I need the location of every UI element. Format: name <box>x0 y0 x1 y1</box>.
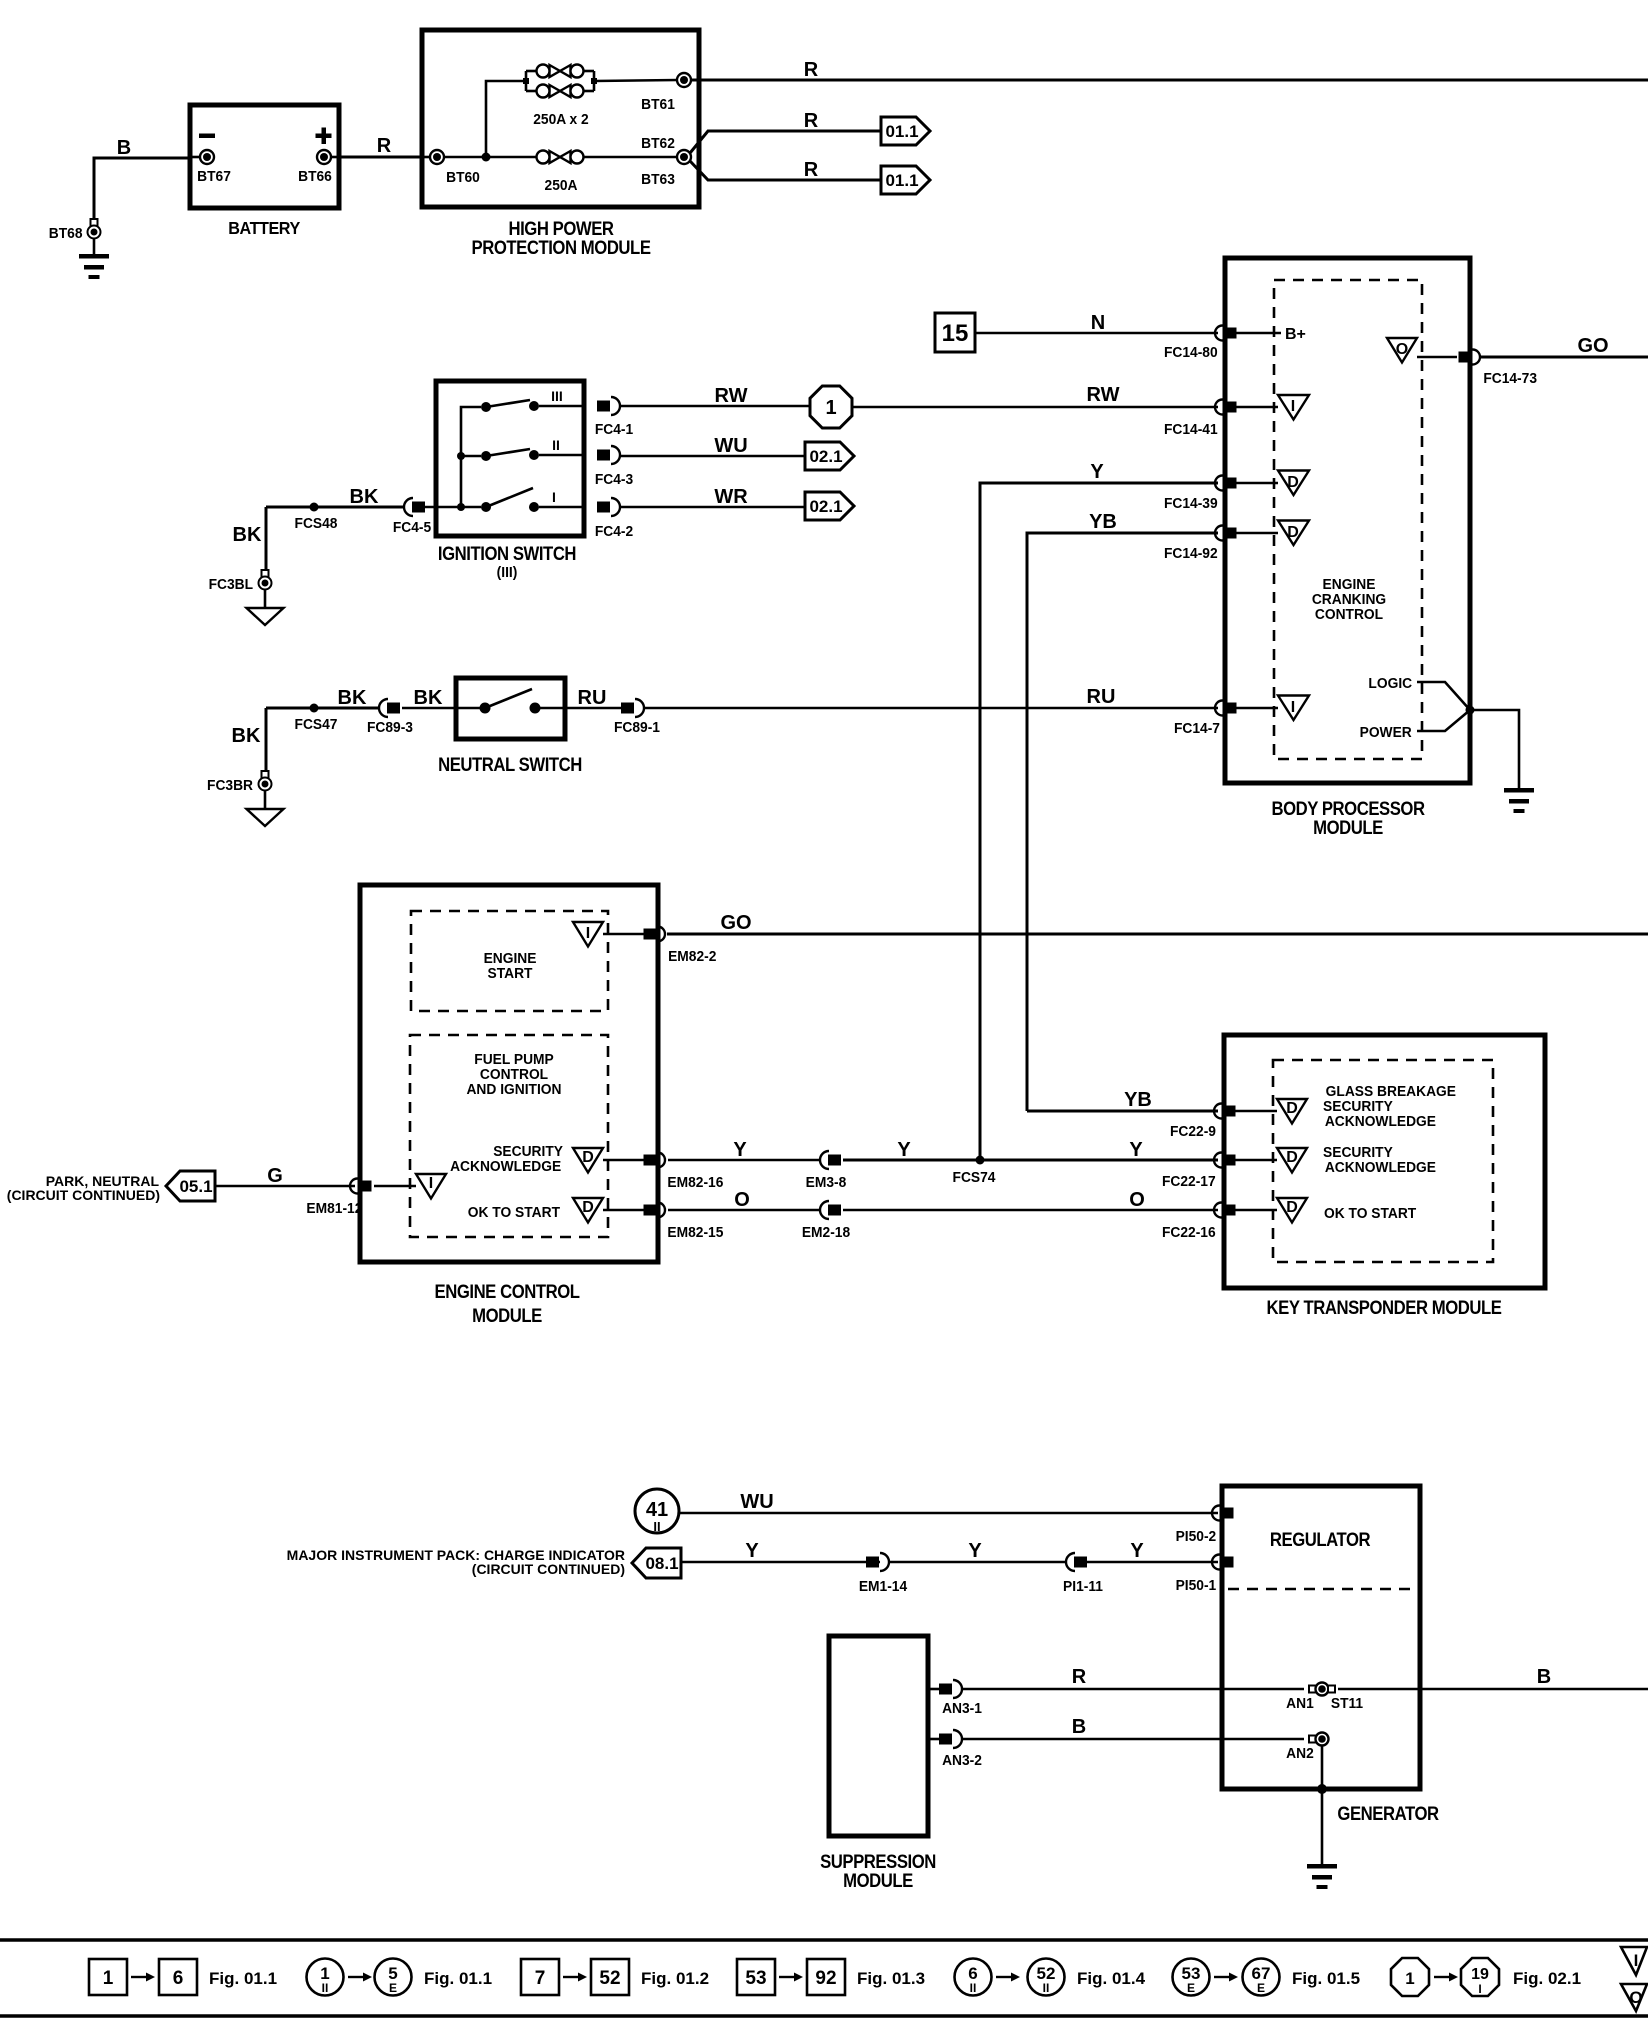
fuel pump dashed block <box>410 1035 608 1237</box>
svg-text:START: START <box>488 966 533 983</box>
svg-text:ACKNOWLEDGE: ACKNOWLEDGE <box>450 1159 561 1176</box>
connector 01.1 lower <box>881 166 930 194</box>
svg-text:FC14-80: FC14-80 <box>1164 345 1218 362</box>
wire BK down to FC3BL <box>233 507 266 570</box>
svg-text:ST11: ST11 <box>1331 1696 1363 1713</box>
wire GO to right edge <box>667 912 1648 934</box>
suppression module box <box>829 1636 928 1836</box>
svg-text:RW: RW <box>1087 384 1120 406</box>
output D triangle (Y) <box>573 1148 644 1173</box>
svg-text:BT61: BT61 <box>641 97 675 114</box>
label OK TO START <box>468 1205 560 1222</box>
svg-text:O: O <box>734 1189 750 1211</box>
connector FC4-3 <box>595 446 633 488</box>
regulator dashed divider <box>1228 1588 1414 1591</box>
svg-text:RU: RU <box>578 687 607 709</box>
svg-text:FC4-3: FC4-3 <box>595 472 633 489</box>
wire WR <box>620 486 805 508</box>
fuse 250A x 2 upper <box>537 65 584 78</box>
pin FC22-9 <box>1170 1104 1236 1141</box>
ignition contact I (open) <box>425 488 584 512</box>
svg-text:(III): (III) <box>497 565 518 582</box>
svg-text:BT62: BT62 <box>641 136 675 153</box>
wire B <box>94 137 190 220</box>
label ENGINE START <box>484 951 537 983</box>
svg-text:O: O <box>1129 1189 1145 1211</box>
label GLASS BREAKAGE SECURITY ACKNOWLEDGE <box>1323 1084 1456 1131</box>
wire YB into module <box>1027 1089 1218 1111</box>
svg-text:FC14-7: FC14-7 <box>1174 721 1220 738</box>
svg-text:E: E <box>1187 1981 1195 1995</box>
svg-text:BT60: BT60 <box>446 170 480 187</box>
svg-text:ENGINE CONTROL: ENGINE CONTROL <box>434 1281 580 1302</box>
wire B to AN2 <box>962 1716 1304 1739</box>
svg-text:PROTECTION MODULE: PROTECTION MODULE <box>472 237 652 258</box>
body processor ground <box>1504 788 1534 813</box>
input I triangle (G) <box>374 1174 446 1199</box>
svg-text:O: O <box>1396 341 1408 358</box>
engine start dashed block <box>411 911 608 1011</box>
output O triangle <box>1387 338 1417 363</box>
wire Y to regulator <box>681 1540 1218 1562</box>
node 15 <box>935 313 975 352</box>
svg-text:R: R <box>804 59 819 81</box>
svg-text:FC89-1: FC89-1 <box>614 720 660 737</box>
svg-text:LOGIC: LOGIC <box>1368 676 1412 693</box>
svg-text:PI50-2: PI50-2 <box>1176 1529 1217 1546</box>
label 250A x 2 <box>533 112 588 129</box>
connector FC89-1 <box>614 699 660 736</box>
label HIGH POWER PROTECTION MODULE <box>472 218 652 258</box>
wire N <box>975 312 1218 334</box>
engine control module box <box>360 885 658 1262</box>
svg-text:D: D <box>1286 1199 1298 1216</box>
svg-text:1: 1 <box>103 1968 114 1989</box>
svg-text:D: D <box>582 1199 594 1216</box>
svg-text:WR: WR <box>714 486 748 508</box>
svg-text:II: II <box>653 1519 660 1534</box>
svg-text:AN3-2: AN3-2 <box>942 1753 982 1770</box>
svg-text:02.1: 02.1 <box>809 447 842 466</box>
legend bottom rule <box>0 2014 1648 2018</box>
ignition contact II <box>481 437 584 461</box>
label PARK NEUTRAL CIRCUIT CONTINUED <box>7 1173 160 1203</box>
svg-text:1: 1 <box>825 397 836 419</box>
svg-text:B: B <box>117 137 131 159</box>
svg-text:FC22-16: FC22-16 <box>1162 1225 1216 1242</box>
ignition switch bus <box>457 407 481 511</box>
wire BK to neutral switch <box>266 687 380 709</box>
svg-text:FC4-5: FC4-5 <box>393 520 431 537</box>
label MAJOR INSTRUMENT PACK <box>287 1547 625 1577</box>
svg-text:BK: BK <box>350 486 379 508</box>
connector FC89-3 <box>367 699 413 736</box>
pin FC14-92 <box>1164 526 1237 563</box>
connector FC4-5 <box>393 498 431 536</box>
pin FC14-80 <box>1164 326 1237 362</box>
connector 01.1 upper <box>881 117 930 145</box>
svg-text:II: II <box>970 1981 977 1995</box>
legend item octagons 1-19 <box>1391 1958 1581 1996</box>
wire R to 01.1 upper <box>690 110 881 153</box>
label FUEL PUMP CONTROL AND IGNITION <box>466 1052 561 1099</box>
svg-text:E: E <box>389 1981 397 1995</box>
svg-text:FCS48: FCS48 <box>295 516 338 533</box>
svg-text:EM82-15: EM82-15 <box>667 1225 723 1242</box>
input D triangle (Y) <box>1235 1148 1307 1173</box>
pin PI50-1 <box>1176 1555 1234 1595</box>
svg-text:R: R <box>377 135 392 157</box>
input I triangle (RW) <box>1236 395 1309 420</box>
ground FC3BR <box>247 791 284 827</box>
terminal BT61 <box>641 73 691 113</box>
svg-text:AN1: AN1 <box>1286 1696 1314 1713</box>
svg-text:BT63: BT63 <box>641 172 675 189</box>
parallel fuse bracket <box>523 71 597 91</box>
svg-text:I: I <box>1634 1951 1639 1970</box>
svg-text:6: 6 <box>173 1968 184 1989</box>
svg-text:ACKNOWLEDGE: ACKNOWLEDGE <box>1325 1160 1436 1177</box>
svg-text:BT68: BT68 <box>49 226 83 243</box>
connector 02.1 lower <box>805 492 854 520</box>
label BT68 <box>49 226 83 243</box>
ignition switch box <box>436 381 584 536</box>
svg-text:BK: BK <box>338 687 367 709</box>
terminal BT60 <box>424 150 480 186</box>
svg-text:RW: RW <box>715 385 748 407</box>
pin FC14-73 <box>1459 350 1538 388</box>
svg-text:WU: WU <box>740 1491 773 1513</box>
label REGULATOR <box>1270 1529 1371 1550</box>
svg-text:AN3-1: AN3-1 <box>942 1701 982 1718</box>
label IGNITION SWITCH <box>438 543 576 581</box>
svg-text:I: I <box>586 925 590 942</box>
label BODY PROCESSOR MODULE <box>1271 798 1425 838</box>
svg-text:IGNITION SWITCH: IGNITION SWITCH <box>438 543 576 564</box>
pin B+ wire <box>1236 326 1306 343</box>
wire RW to body processor <box>852 384 1218 407</box>
svg-text:Fig. 01.1: Fig. 01.1 <box>209 1969 277 1988</box>
svg-text:CONTROL: CONTROL <box>1315 607 1383 624</box>
svg-text:D: D <box>1287 524 1299 541</box>
svg-text:KEY TRANSPONDER MODULE: KEY TRANSPONDER MODULE <box>1267 1297 1502 1318</box>
svg-text:YB: YB <box>1089 511 1117 533</box>
svg-text:Fig. 01.5: Fig. 01.5 <box>1292 1969 1360 1988</box>
wire RW to node 1 <box>620 385 810 407</box>
svg-text:Fig. 01.2: Fig. 01.2 <box>641 1969 709 1988</box>
pin PI50-2 <box>1176 1506 1234 1546</box>
wire fuse to BT62/BT63 <box>584 156 679 159</box>
pin EM81-12 <box>306 1179 371 1218</box>
svg-text:15: 15 <box>942 320 969 347</box>
label LOGIC <box>1368 676 1412 693</box>
label POWER <box>1360 725 1413 742</box>
svg-text:OK TO START: OK TO START <box>1324 1206 1416 1223</box>
svg-text:Fig. 01.4: Fig. 01.4 <box>1077 1969 1146 1988</box>
input D triangle (YB) <box>1236 521 1309 546</box>
svg-text:FC14-41: FC14-41 <box>1164 422 1218 439</box>
connector AN3-2 <box>928 1730 982 1769</box>
neutral switch contacts <box>480 689 541 714</box>
svg-text:FC89-3: FC89-3 <box>367 720 413 737</box>
svg-text:FCS47: FCS47 <box>295 717 338 734</box>
svg-text:B: B <box>1072 1716 1086 1738</box>
svg-text:FC22-17: FC22-17 <box>1162 1174 1216 1191</box>
label GENERATOR <box>1337 1803 1439 1824</box>
label OK TO START <box>1324 1206 1416 1223</box>
svg-text:FCS74: FCS74 <box>953 1170 996 1187</box>
svg-text:R: R <box>804 110 819 132</box>
wire to BPM ground <box>1470 710 1519 788</box>
svg-text:EM81-12: EM81-12 <box>306 1201 362 1218</box>
pin EM82-2 <box>644 927 717 966</box>
wire R to AN1 <box>962 1666 1304 1689</box>
pin FC14-41 <box>1164 400 1237 439</box>
svg-text:BT66: BT66 <box>298 169 332 186</box>
neutral switch box <box>456 678 565 739</box>
svg-text:FC22-9: FC22-9 <box>1170 1124 1216 1141</box>
svg-text:92: 92 <box>815 1968 836 1989</box>
fuse 250A x 2 lower <box>537 85 584 98</box>
connector AN3-1 <box>928 1680 982 1717</box>
svg-text:Y: Y <box>1130 1540 1144 1562</box>
wire Y vertical <box>980 461 1218 1161</box>
wire BK down to FC3BR <box>232 708 266 771</box>
wire RU out of switch <box>540 687 621 709</box>
input D triangle (Y) <box>1236 471 1309 496</box>
svg-text:MODULE: MODULE <box>472 1305 542 1326</box>
svg-text:POWER: POWER <box>1360 725 1413 742</box>
svg-text:7: 7 <box>535 1968 546 1989</box>
svg-text:FC14-92: FC14-92 <box>1164 546 1218 563</box>
legend item circles 1-5 <box>307 1959 493 1996</box>
input D triangle (O) <box>1235 1198 1307 1223</box>
svg-text:R: R <box>1072 1666 1087 1688</box>
svg-text:Y: Y <box>1129 1139 1143 1161</box>
svg-text:Y: Y <box>968 1540 982 1562</box>
svg-text:FC3BR: FC3BR <box>207 778 254 795</box>
splice FCS74 <box>953 1156 996 1187</box>
legend item squares 7-52 <box>521 1959 709 1995</box>
legend O triangle <box>1621 1984 1647 2011</box>
label NEUTRAL SWITCH <box>438 754 582 775</box>
wire fuses to BT61 <box>594 80 678 81</box>
output D triangle (O) <box>573 1198 644 1223</box>
connector 05.1 <box>166 1171 215 1201</box>
pin FC14-7 <box>1174 701 1237 738</box>
svg-text:AND IGNITION: AND IGNITION <box>466 1082 561 1099</box>
wire BK into switch <box>402 687 480 709</box>
svg-text:FC4-2: FC4-2 <box>595 524 633 541</box>
svg-text:(CIRCUIT CONTINUED): (CIRCUIT CONTINUED) <box>472 1561 625 1577</box>
wire junction up to parallel fuses <box>486 81 526 157</box>
label BATTERY <box>228 218 300 238</box>
ring terminal AN2 <box>1286 1733 1328 1763</box>
legend item squares 1-6 <box>89 1959 277 1995</box>
legend item squares 53-92 <box>737 1959 925 1995</box>
svg-text:Y: Y <box>745 1540 759 1562</box>
svg-text:I: I <box>1291 699 1295 716</box>
svg-text:REGULATOR: REGULATOR <box>1270 1529 1371 1550</box>
svg-text:EM82-16: EM82-16 <box>667 1175 723 1192</box>
svg-text:B: B <box>1537 1666 1551 1688</box>
svg-text:B+: B+ <box>1285 326 1306 343</box>
battery minus sign <box>199 134 215 139</box>
svg-text:PI1-11: PI1-11 <box>1063 1579 1103 1596</box>
wire BT60 to fuse <box>444 156 536 159</box>
ring terminal AN1 / ST11 <box>1286 1683 1363 1713</box>
svg-text:I: I <box>1291 398 1295 415</box>
ground FC3BL <box>247 590 284 626</box>
svg-text:II: II <box>1043 1981 1050 1995</box>
body processor inner dashed block <box>1274 280 1422 759</box>
connector FC3BL <box>209 570 272 593</box>
svg-text:I: I <box>1478 1982 1481 1996</box>
svg-text:Fig. 02.1: Fig. 02.1 <box>1513 1969 1581 1988</box>
key transponder module box <box>1224 1035 1545 1288</box>
svg-text:D: D <box>582 1149 594 1166</box>
svg-text:Y: Y <box>733 1139 747 1161</box>
svg-text:RU: RU <box>1087 686 1116 708</box>
connector EM3-8 <box>806 1151 847 1191</box>
wire O to key transponder <box>843 1189 1218 1211</box>
wire YB vertical <box>1027 511 1218 1111</box>
svg-text:II: II <box>552 437 560 453</box>
svg-text:05.1: 05.1 <box>179 1177 212 1196</box>
battery plus sign <box>316 128 332 145</box>
svg-text:08.1: 08.1 <box>645 1554 678 1573</box>
svg-text:GO: GO <box>1577 335 1608 357</box>
generator ground <box>1307 1864 1337 1889</box>
wire BK to ignition <box>266 486 404 508</box>
connector FC3BR <box>207 771 271 794</box>
svg-text:BK: BK <box>233 524 262 546</box>
node 1 octagon <box>810 386 852 428</box>
legend item circles 6-52 <box>955 1959 1146 1996</box>
svg-text:I: I <box>429 1175 433 1192</box>
svg-text:41: 41 <box>646 1499 668 1521</box>
output I triangle (GO) <box>573 922 644 947</box>
svg-text:GO: GO <box>720 912 751 934</box>
svg-text:D: D <box>1286 1149 1298 1166</box>
svg-text:ACKNOWLEDGE: ACKNOWLEDGE <box>1325 1114 1436 1131</box>
svg-text:E: E <box>1257 1981 1265 1995</box>
connector EM1-14 <box>859 1553 907 1595</box>
wire Y to key transponder <box>843 1139 1218 1161</box>
pin FC22-16 <box>1162 1203 1236 1242</box>
svg-text:D: D <box>1286 1100 1298 1117</box>
ground BT68 <box>79 219 109 279</box>
svg-text:EM2-18: EM2-18 <box>802 1225 850 1242</box>
body processor module box <box>1225 258 1470 783</box>
wire RU to body processor <box>644 686 1218 708</box>
wire GO to right edge <box>1481 335 1648 357</box>
junction <box>482 153 491 162</box>
svg-text:BATTERY: BATTERY <box>228 218 300 238</box>
terminal BT67 <box>190 150 231 185</box>
svg-text:BK: BK <box>414 687 443 709</box>
svg-text:Fig. 01.1: Fig. 01.1 <box>424 1969 492 1988</box>
wire R top to right edge <box>691 59 1648 81</box>
label SECURITY ACKNOWLEDGE <box>1323 1145 1436 1177</box>
svg-text:II: II <box>322 1981 329 1995</box>
svg-text:AN2: AN2 <box>1286 1746 1314 1763</box>
wire AN2 to ground <box>1317 1746 1327 1865</box>
pin EM82-15 <box>644 1203 724 1242</box>
connector 08.1 <box>632 1548 681 1578</box>
svg-text:FC3BL: FC3BL <box>209 577 254 594</box>
svg-text:YB: YB <box>1124 1089 1152 1111</box>
svg-text:G: G <box>267 1165 283 1187</box>
connector PI1-11 <box>1063 1553 1103 1595</box>
input I triangle (RU) <box>1236 696 1309 721</box>
wire O triangle to FC14-73 <box>1417 356 1457 359</box>
svg-text:R: R <box>804 159 819 181</box>
splice FCS47 <box>295 704 338 734</box>
regulator box <box>1222 1486 1420 1789</box>
svg-text:EM1-14: EM1-14 <box>859 1579 907 1596</box>
svg-text:52: 52 <box>599 1968 620 1989</box>
legend item circles 53-67 <box>1173 1959 1361 1996</box>
svg-text:BK: BK <box>232 725 261 747</box>
pin FC22-17 <box>1162 1153 1236 1191</box>
svg-text:I: I <box>552 489 556 505</box>
svg-text:(CIRCUIT CONTINUED): (CIRCUIT CONTINUED) <box>7 1187 160 1203</box>
svg-text:D: D <box>1287 474 1299 491</box>
high power protection module box <box>422 30 699 207</box>
svg-text:MODULE: MODULE <box>843 1870 913 1891</box>
input D triangle (YB) <box>1235 1099 1307 1124</box>
terminal BT62/BT63 <box>641 136 691 189</box>
svg-text:FC4-1: FC4-1 <box>595 422 633 439</box>
svg-text:GENERATOR: GENERATOR <box>1337 1803 1439 1824</box>
svg-text:02.1: 02.1 <box>809 497 842 516</box>
svg-text:Y: Y <box>897 1139 911 1161</box>
svg-text:EM82-2: EM82-2 <box>668 949 716 966</box>
wire Y ECM to EM3-8 <box>668 1139 820 1161</box>
connector 02.1 upper <box>805 442 854 470</box>
svg-text:01.1: 01.1 <box>885 122 918 141</box>
svg-text:01.1: 01.1 <box>885 171 918 190</box>
label ENGINE CONTROL MODULE <box>434 1281 580 1326</box>
wire WU <box>620 435 805 457</box>
svg-text:19: 19 <box>1471 1966 1489 1983</box>
battery box <box>190 105 339 208</box>
svg-text:MODULE: MODULE <box>1313 817 1383 838</box>
svg-text:250A: 250A <box>545 178 579 195</box>
pin EM82-16 <box>644 1153 724 1192</box>
svg-text:1: 1 <box>1405 1969 1414 1988</box>
svg-text:EM3-8: EM3-8 <box>806 1175 847 1192</box>
node 41 circle <box>635 1489 679 1534</box>
svg-text:O: O <box>1629 1988 1642 2007</box>
legend I triangle <box>1621 1947 1647 1975</box>
svg-text:NEUTRAL SWITCH: NEUTRAL SWITCH <box>438 754 582 775</box>
connector FC4-1 <box>595 397 633 438</box>
logic/power join wires <box>1417 682 1475 731</box>
svg-text:OK TO START: OK TO START <box>468 1205 560 1222</box>
wire B to right edge <box>1338 1666 1648 1689</box>
svg-text:Fig. 01.3: Fig. 01.3 <box>857 1969 925 1988</box>
svg-text:III: III <box>551 388 563 404</box>
connector EM2-18 <box>802 1201 850 1241</box>
splice FCS48 <box>295 503 338 533</box>
fuse 250A <box>537 151 584 195</box>
svg-text:53: 53 <box>745 1968 766 1989</box>
svg-text:N: N <box>1091 312 1105 334</box>
wire G <box>215 1165 355 1187</box>
pin FC14-39 <box>1164 476 1237 513</box>
